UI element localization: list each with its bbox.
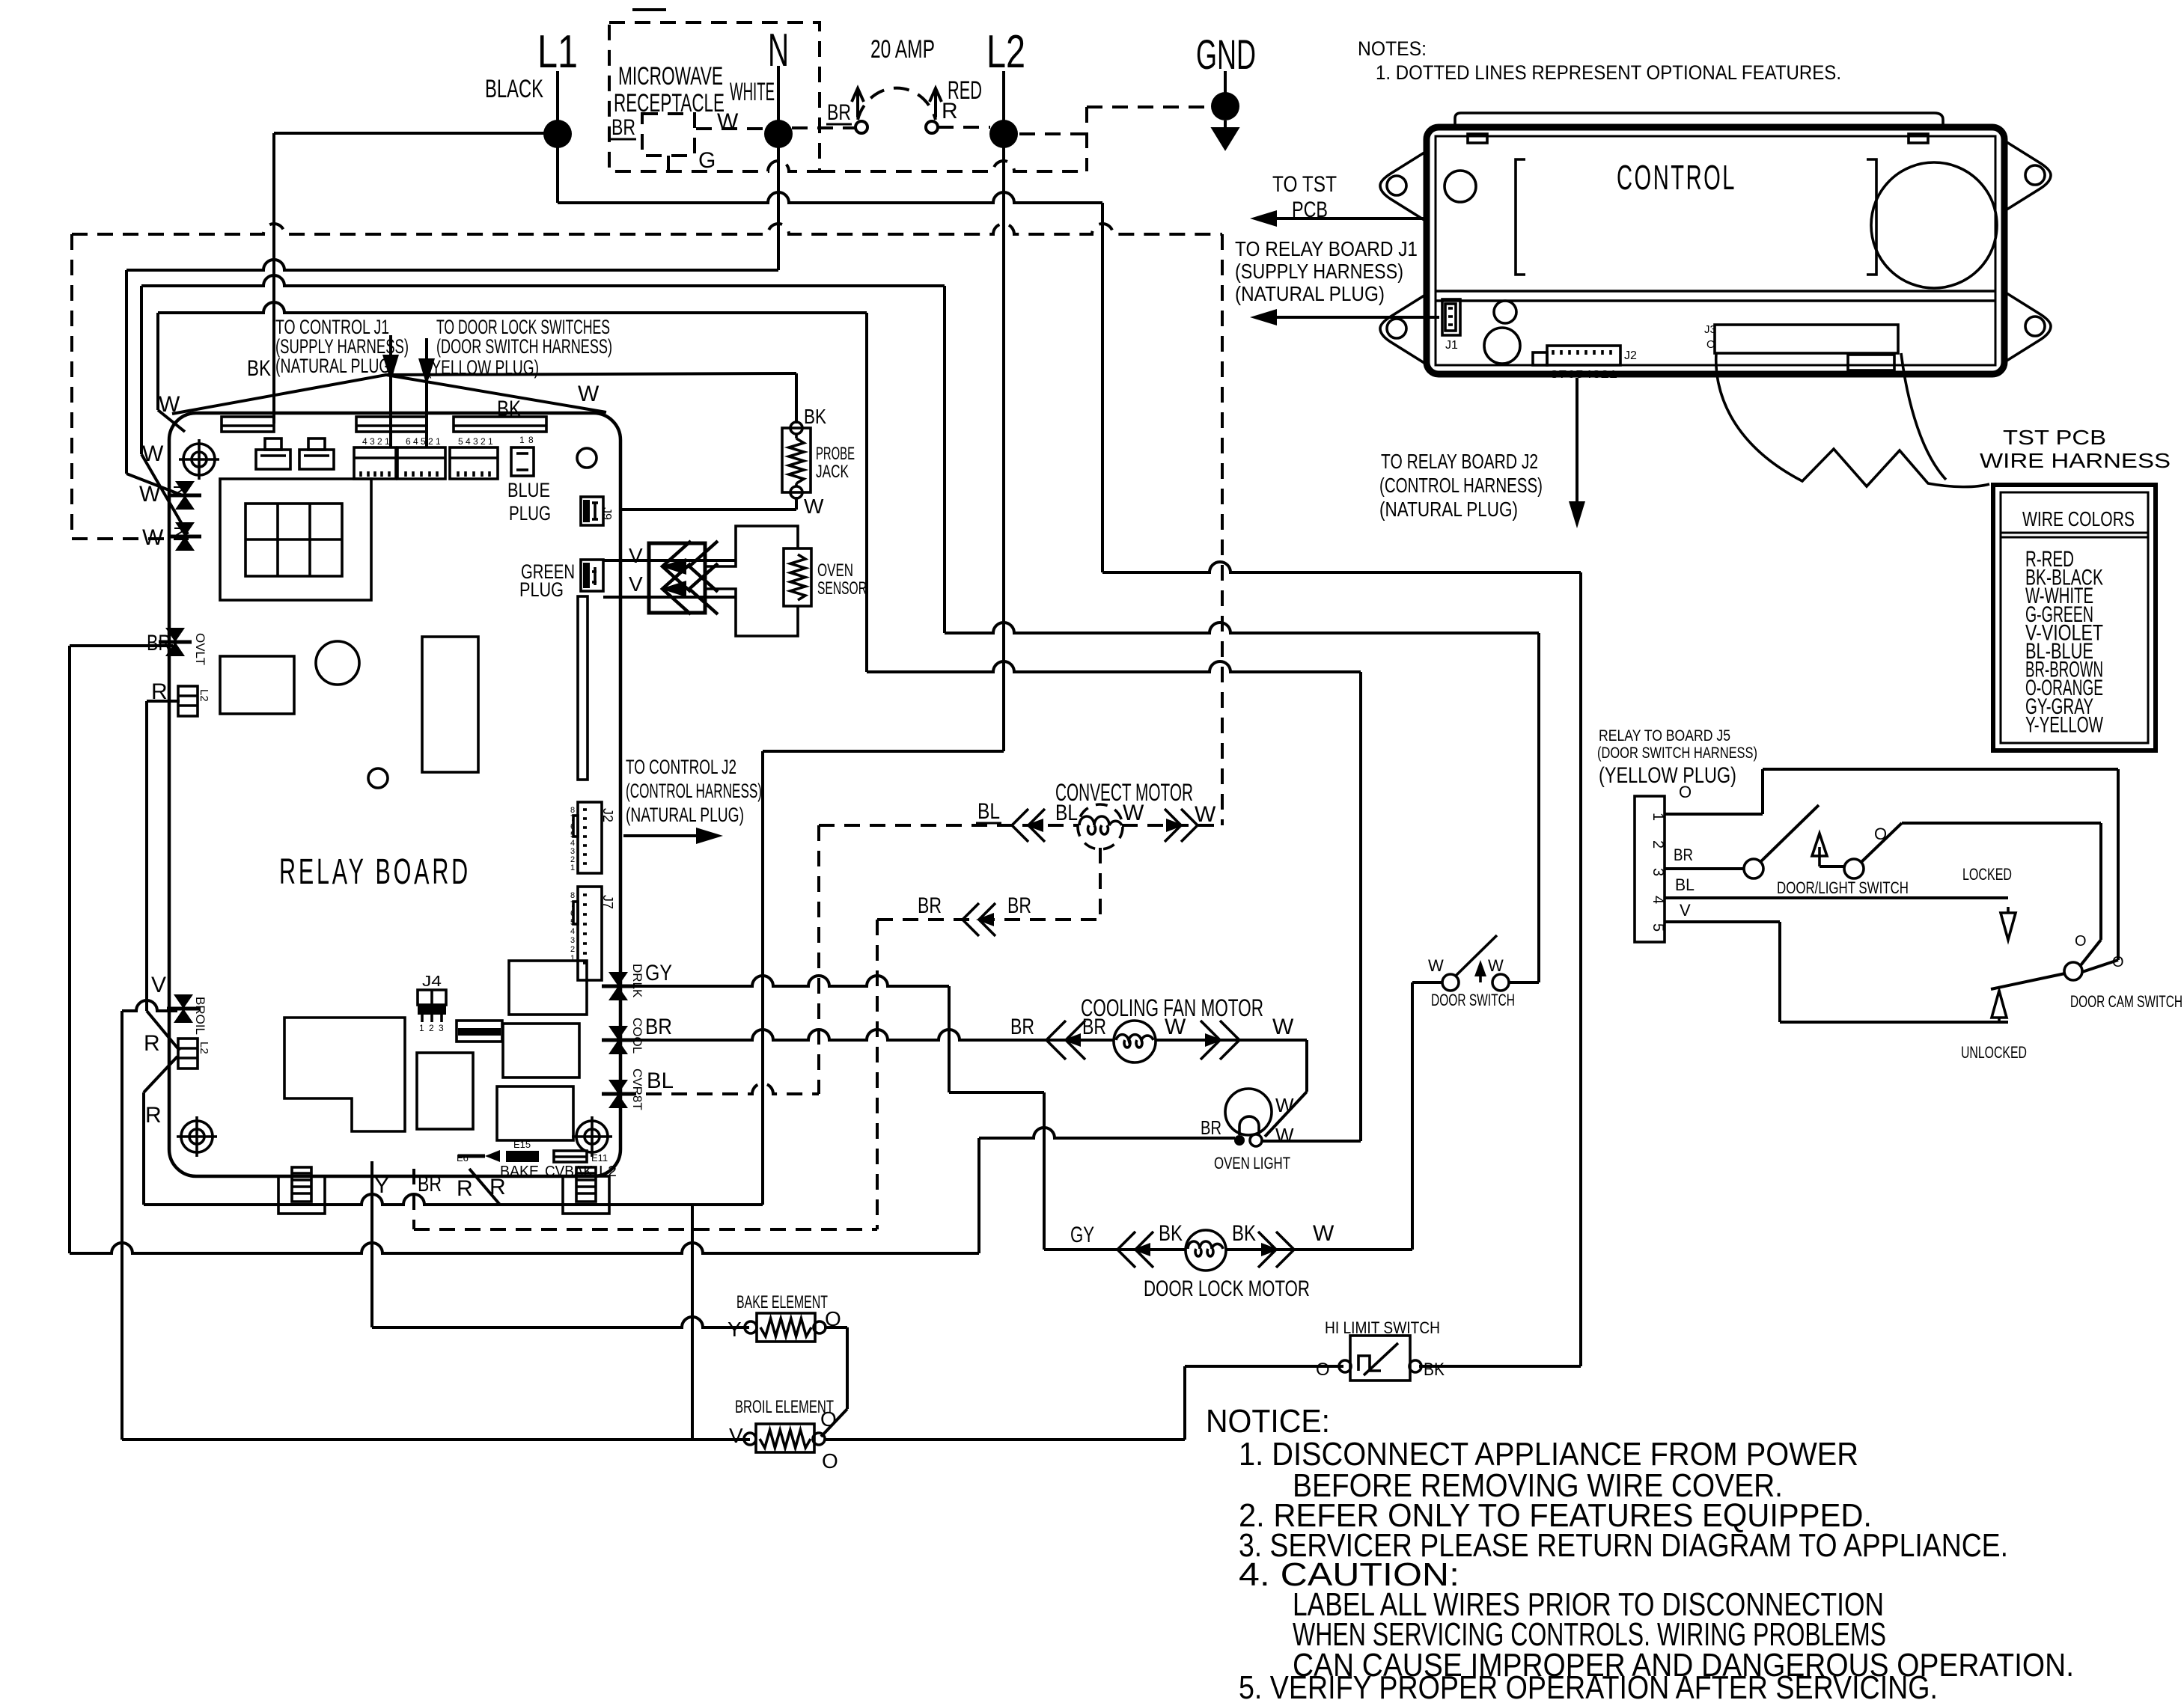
svg-text:RELAY TO BOARD J5: RELAY TO BOARD J5	[1599, 727, 1730, 744]
svg-text:1: 1	[436, 436, 441, 447]
svg-text:1: 1	[1650, 813, 1666, 821]
svg-text:CONTROL: CONTROL	[1617, 158, 1736, 197]
svg-text:E15: E15	[513, 1139, 531, 1150]
svg-text:DOOR LOCK MOTOR: DOOR LOCK MOTOR	[1144, 1276, 1310, 1301]
svg-text:W: W	[142, 441, 164, 466]
svg-text:BR: BR	[918, 893, 942, 918]
svg-text:(NATURAL PLUG): (NATURAL PLUG)	[1235, 282, 1385, 305]
svg-text:W: W	[1275, 1094, 1294, 1116]
svg-text:R: R	[942, 99, 958, 123]
svg-text:2: 2	[570, 945, 575, 954]
svg-text:8: 8	[570, 891, 575, 900]
svg-text:1: 1	[385, 436, 390, 447]
svg-text:(CONTROL HARNESS): (CONTROL HARNESS)	[626, 780, 762, 802]
svg-text:BR: BR	[1010, 1015, 1034, 1039]
svg-text:5: 5	[1650, 923, 1666, 932]
svg-text:J7: J7	[600, 895, 615, 909]
svg-text:PROBE: PROBE	[816, 444, 855, 464]
svg-text:BR: BR	[1007, 893, 1031, 918]
svg-text:O: O	[1874, 825, 1887, 843]
svg-text:20 AMP: 20 AMP	[870, 35, 935, 64]
svg-text:BROIL ELEMENT: BROIL ELEMENT	[735, 1397, 834, 1417]
svg-text:W: W	[1195, 802, 1216, 827]
svg-text:GY: GY	[1070, 1223, 1094, 1247]
svg-text:O: O	[2075, 933, 2087, 950]
svg-text:BL: BL	[977, 799, 1000, 824]
svg-text:OVEN: OVEN	[817, 560, 853, 581]
svg-text:CVBAK: CVBAK	[545, 1164, 594, 1180]
svg-text:DOOR/LIGHT SWITCH: DOOR/LIGHT SWITCH	[1777, 878, 1909, 897]
svg-text:BR: BR	[147, 631, 171, 655]
svg-text:6: 6	[570, 909, 575, 918]
svg-text:W: W	[578, 382, 600, 406]
svg-text:Y-YELLOW: Y-YELLOW	[2025, 712, 2103, 737]
svg-text:NOTICE:: NOTICE:	[1206, 1403, 1330, 1440]
svg-text:W: W	[804, 495, 824, 518]
svg-text:WIRE COLORS: WIRE COLORS	[2022, 507, 2135, 531]
svg-text:2: 2	[377, 436, 382, 447]
svg-text:RECEPTACLE: RECEPTACLE	[614, 89, 725, 117]
svg-text:O: O	[822, 1449, 838, 1473]
svg-text:BK: BK	[247, 356, 271, 381]
svg-text:BLACK: BLACK	[485, 75, 543, 103]
svg-text:BK: BK	[1159, 1221, 1183, 1246]
svg-text:5: 5	[458, 436, 463, 447]
svg-text:TO CONTROL J2: TO CONTROL J2	[626, 756, 736, 778]
svg-text:2: 2	[428, 436, 433, 447]
svg-text:DOOR CAM SWITCH: DOOR CAM SWITCH	[2070, 992, 2183, 1011]
svg-text:Y: Y	[374, 1173, 389, 1198]
svg-text:O: O	[1679, 783, 1692, 801]
svg-text:DRLK: DRLK	[630, 964, 644, 998]
svg-text:J2: J2	[600, 808, 615, 822]
svg-text:1: 1	[570, 863, 575, 872]
svg-text:PLUG: PLUG	[519, 578, 564, 601]
svg-text:3: 3	[473, 436, 478, 447]
svg-text:(NATURAL PLUG): (NATURAL PLUG)	[275, 355, 395, 377]
svg-text:WHITE: WHITE	[730, 78, 775, 106]
svg-text:J4: J4	[422, 973, 442, 990]
svg-text:OVLT: OVLT	[193, 633, 207, 665]
svg-text:N: N	[170, 526, 190, 539]
svg-text:W: W	[1272, 1015, 1294, 1039]
svg-text:NOTES:: NOTES:	[1358, 37, 1427, 60]
svg-text:W: W	[159, 392, 180, 417]
svg-text:3: 3	[1650, 868, 1666, 876]
svg-text:E11: E11	[591, 1152, 608, 1164]
svg-text:2: 2	[429, 1023, 434, 1033]
svg-text:4: 4	[466, 436, 471, 447]
svg-text:WIRE HARNESS: WIRE HARNESS	[1980, 449, 2171, 472]
svg-text:TO RELAY BOARD J1: TO RELAY BOARD J1	[1235, 237, 1418, 260]
svg-text:2: 2	[481, 436, 486, 447]
svg-text:BK: BK	[1424, 1360, 1445, 1380]
svg-text:W: W	[1313, 1221, 1335, 1246]
svg-text:G: G	[698, 148, 716, 173]
svg-text:V: V	[729, 1424, 743, 1447]
svg-text:3: 3	[439, 1023, 444, 1033]
svg-text:O: O	[2112, 954, 2124, 970]
svg-text:BL: BL	[647, 1068, 674, 1093]
svg-text:(CONTROL HARNESS): (CONTROL HARNESS)	[1379, 474, 1543, 497]
svg-text:4: 4	[413, 436, 418, 447]
svg-text:SENSOR: SENSOR	[817, 578, 867, 599]
svg-text:RELAY BOARD: RELAY BOARD	[279, 852, 471, 892]
svg-text:L2: L2	[198, 689, 210, 702]
svg-text:JACK: JACK	[816, 462, 849, 482]
svg-text:GY: GY	[645, 961, 672, 985]
svg-text:E6: E6	[457, 1152, 469, 1164]
svg-text:BR: BR	[1674, 846, 1693, 864]
svg-text:HI LIMIT SWITCH: HI LIMIT SWITCH	[1325, 1318, 1440, 1337]
svg-text:BR: BR	[611, 115, 635, 140]
svg-text:2: 2	[1650, 840, 1666, 849]
svg-text:L2: L2	[986, 26, 1025, 78]
svg-text:CVR8T: CVR8T	[630, 1068, 644, 1110]
svg-text:OVEN LIGHT: OVEN LIGHT	[1214, 1154, 1290, 1172]
svg-text:W: W	[1488, 956, 1504, 975]
svg-text:BR: BR	[645, 1015, 672, 1039]
svg-text:W: W	[1165, 1015, 1186, 1039]
svg-text:W: W	[1123, 801, 1144, 825]
svg-text:TST PCB: TST PCB	[2003, 426, 2106, 449]
svg-text:BAKE: BAKE	[500, 1164, 539, 1180]
svg-text:O: O	[820, 1407, 837, 1431]
svg-text:MICROWAVE: MICROWAVE	[618, 62, 723, 91]
svg-text:BAKE ELEMENT: BAKE ELEMENT	[736, 1292, 828, 1312]
svg-text:J1: J1	[1445, 339, 1458, 352]
svg-text:5: 5	[421, 436, 426, 447]
svg-text:W: W	[139, 482, 161, 507]
svg-text:BR: BR	[1201, 1116, 1221, 1139]
svg-text:L2: L2	[599, 1164, 617, 1180]
svg-text:(DOOR SWITCH HARNESS): (DOOR SWITCH HARNESS)	[436, 335, 612, 358]
svg-text:1: 1	[570, 954, 575, 963]
svg-text:(DOOR SWITCH HARNESS): (DOOR SWITCH HARNESS)	[1597, 744, 1757, 762]
svg-text:Y: Y	[728, 1318, 742, 1341]
svg-text:O: O	[1316, 1360, 1330, 1380]
svg-text:3: 3	[570, 936, 575, 945]
svg-text:GND: GND	[1196, 31, 1256, 78]
svg-text:(NATURAL PLUG): (NATURAL PLUG)	[1379, 498, 1518, 521]
svg-text:BR: BR	[418, 1172, 442, 1196]
svg-text:W: W	[1275, 1124, 1294, 1146]
svg-text:W: W	[142, 525, 164, 550]
svg-text:1: 1	[488, 436, 493, 447]
svg-text:5. VERIFY PROPER OPERATION AFT: 5. VERIFY PROPER OPERATION AFTER SERVICI…	[1239, 1669, 1938, 1700]
svg-text:4: 4	[570, 927, 575, 936]
svg-text:L2: L2	[198, 1042, 210, 1054]
svg-text:BK: BK	[497, 397, 521, 421]
svg-text:W: W	[717, 109, 739, 134]
svg-text:BK: BK	[804, 405, 826, 428]
svg-text:R: R	[144, 1031, 160, 1056]
svg-text:LOCKED: LOCKED	[1962, 865, 2012, 884]
svg-text:8: 8	[528, 435, 534, 445]
svg-text:1. DOTTED LINES REPRESENT OPTI: 1. DOTTED LINES REPRESENT OPTIONAL FEATU…	[1376, 61, 1841, 84]
svg-text:R: R	[151, 679, 168, 704]
svg-text:O: O	[1706, 338, 1715, 351]
svg-text:(SUPPLY HARNESS): (SUPPLY HARNESS)	[1235, 260, 1403, 283]
svg-text:COOL: COOL	[630, 1018, 644, 1054]
svg-text:6: 6	[406, 436, 411, 447]
svg-text:3: 3	[370, 436, 375, 447]
svg-text:BR: BR	[827, 100, 851, 125]
svg-text:BL: BL	[1055, 801, 1078, 825]
svg-text:(NATURAL PLUG): (NATURAL PLUG)	[626, 804, 744, 826]
svg-text:V: V	[1680, 901, 1691, 920]
svg-text:O: O	[825, 1307, 841, 1330]
svg-text:TO RELAY BOARD J2: TO RELAY BOARD J2	[1381, 450, 1538, 473]
svg-text:R: R	[489, 1175, 506, 1199]
svg-text:N: N	[169, 485, 189, 498]
svg-text:4: 4	[1650, 896, 1666, 904]
svg-text:UNLOCKED: UNLOCKED	[1961, 1043, 2027, 1062]
svg-text:R: R	[145, 1103, 162, 1128]
svg-text:TO TST: TO TST	[1272, 172, 1337, 197]
svg-text:BROIL: BROIL	[193, 997, 207, 1035]
svg-text:W: W	[1428, 956, 1444, 975]
svg-text:1: 1	[419, 1023, 424, 1033]
svg-text:J9: J9	[600, 507, 613, 520]
svg-text:R: R	[457, 1176, 473, 1201]
svg-text:J3: J3	[1704, 323, 1716, 336]
svg-text:V: V	[629, 544, 643, 567]
svg-text:87654321: 87654321	[1550, 368, 1617, 381]
svg-text:BR: BR	[1082, 1015, 1106, 1039]
svg-text:V: V	[629, 572, 643, 596]
svg-text:BK: BK	[1232, 1221, 1256, 1246]
svg-text:(YELLOW PLUG): (YELLOW PLUG)	[1599, 763, 1736, 788]
svg-text:(YELLOW PLUG): (YELLOW PLUG)	[427, 356, 539, 379]
svg-text:J2: J2	[1624, 349, 1637, 362]
svg-text:V: V	[151, 973, 166, 997]
svg-text:7: 7	[570, 900, 575, 909]
svg-text:DOOR SWITCH: DOOR SWITCH	[1431, 991, 1515, 1009]
svg-text:4: 4	[362, 436, 367, 447]
svg-text:BLUE: BLUE	[507, 479, 550, 501]
svg-text:1: 1	[519, 435, 525, 445]
svg-text:BL: BL	[1675, 875, 1695, 894]
svg-text:5: 5	[570, 918, 575, 927]
svg-text:L1: L1	[537, 26, 578, 78]
svg-text:PCB: PCB	[1292, 198, 1328, 222]
svg-text:PLUG: PLUG	[509, 502, 551, 525]
svg-text:N: N	[768, 25, 789, 76]
